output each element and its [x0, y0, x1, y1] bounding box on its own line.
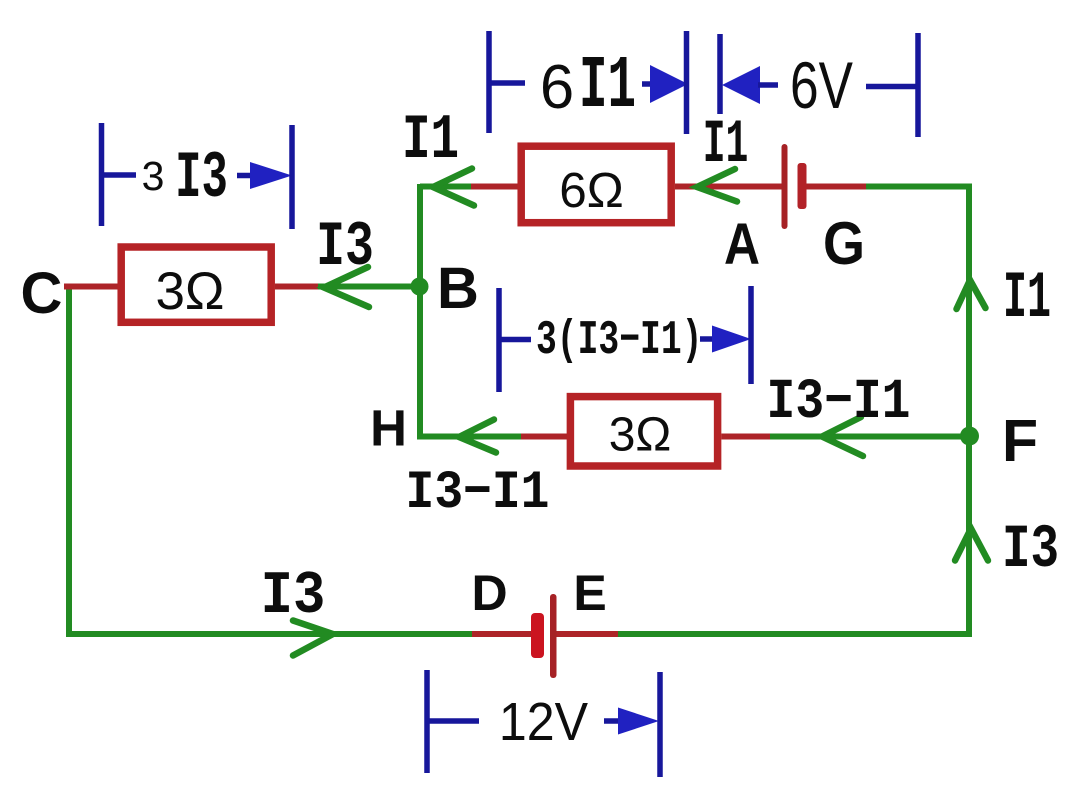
- wire green into node B: [318, 284, 420, 290]
- svg-text:I3: I3: [175, 141, 228, 216]
- svg-text:I1: I1: [579, 44, 636, 128]
- current label I1 right column: [1003, 263, 1051, 337]
- current label I3 bottom: [261, 564, 326, 631]
- svg-text:I3: I3: [261, 564, 326, 631]
- voltage annotation 3(I3-I1) bar right: [748, 286, 754, 384]
- svg-text:3(I3−I1): 3(I3−I1): [536, 313, 702, 368]
- voltage annotation 3(I3-I1) arrow: [700, 326, 751, 353]
- wire green H lead: [417, 434, 521, 440]
- voltage annotation 12V bar right: [657, 672, 663, 777]
- resistor 3ohm left: [121, 247, 271, 322]
- voltage annotation 12V bar left: [427, 670, 479, 773]
- current label I3 right column: [1002, 515, 1059, 586]
- svg-text:I3−I1: I3−I1: [406, 464, 550, 524]
- voltage annotation 6I1 bar right: [684, 31, 690, 134]
- resistor 3ohm middle: [570, 397, 717, 466]
- node label G: [823, 210, 865, 277]
- svg-text:3Ω: 3Ω: [155, 262, 224, 321]
- node B: [411, 278, 429, 296]
- wire red 3ohm right lead: [275, 284, 318, 290]
- wire green top from corner B column: [420, 184, 471, 190]
- voltage annotation 6V text: [790, 48, 853, 123]
- arrowhead I3 bottom wire: [293, 621, 333, 656]
- voltage annotation 6V bar left: [717, 34, 723, 114]
- svg-text:G: G: [823, 210, 865, 277]
- wire bottom horizontal right green: [618, 631, 972, 637]
- current label I3 row B: [316, 211, 374, 283]
- voltage annotation 6I1 text: [540, 44, 636, 128]
- wire left vertical C to bottom: [66, 287, 72, 635]
- voltage annotation 6V bar right: [915, 33, 921, 137]
- wire vertical B column: [417, 184, 423, 437]
- arrowhead I1 left of 6ohm: [433, 169, 474, 206]
- svg-text:I3: I3: [316, 211, 374, 283]
- wire red middle 3ohm left lead: [521, 434, 567, 440]
- voltage annotation 3I3 bar left: [102, 123, 137, 226]
- battery 12V plate short (D side): [531, 613, 544, 658]
- svg-text:I3: I3: [1002, 515, 1059, 586]
- svg-text:12V: 12V: [499, 691, 589, 751]
- svg-text:6Ω: 6Ω: [559, 163, 624, 218]
- svg-text:H: H: [370, 400, 407, 457]
- voltage annotation 6I1 bar left: [489, 31, 525, 133]
- wire bottom horizontal left green: [66, 631, 472, 637]
- wire red middle 3ohm right lead: [721, 434, 770, 440]
- svg-text:3: 3: [142, 153, 165, 199]
- svg-text:A: A: [724, 213, 760, 277]
- wire top right green from corner to battery red: [866, 184, 972, 190]
- voltage annotation 3I3 arrow: [237, 162, 292, 189]
- arrowhead into H: [459, 420, 496, 453]
- arrowhead I1 right of 6ohm: [697, 169, 737, 202]
- current label I3-I1 below H: [406, 464, 550, 524]
- svg-text:I1: I1: [703, 110, 749, 180]
- wire red battery G side: [807, 184, 867, 190]
- wire green to node F: [770, 434, 969, 440]
- arrowhead I3 up right column: [955, 529, 988, 561]
- voltage annotation 12V text: [499, 691, 589, 751]
- node label E: [573, 565, 606, 621]
- svg-text:I1: I1: [402, 105, 459, 176]
- node label D: [471, 565, 507, 621]
- voltage annotation 12V arrow: [604, 708, 659, 735]
- node label A: [724, 213, 760, 277]
- voltage annotation 3I3 text: [142, 141, 228, 216]
- voltage annotation 6V line: [866, 84, 918, 90]
- current label I1 top left: [402, 105, 459, 176]
- wire red 6ohm left lead: [471, 184, 518, 190]
- arrowhead I3 into 3ohm left row: [324, 267, 369, 307]
- svg-text:I3−I1: I3−I1: [767, 369, 911, 434]
- wire red battery A side to resistor 6ohm: [675, 184, 782, 190]
- battery 6V plate long (A side): [782, 144, 788, 229]
- svg-text:F: F: [1002, 408, 1038, 474]
- wire bottom red right of battery: [556, 631, 618, 637]
- current label I3-I1 above middle resistor: [767, 369, 911, 434]
- node label C: [21, 261, 63, 326]
- svg-text:E: E: [573, 565, 606, 621]
- node label H: [370, 400, 407, 457]
- svg-text:3Ω: 3Ω: [609, 409, 672, 462]
- wire red C to resistor 3ohm: [64, 284, 118, 290]
- node F: [960, 427, 979, 446]
- voltage annotation 6I1 arrow: [642, 65, 688, 103]
- voltage annotation 6V arrow: [722, 66, 778, 104]
- svg-text:B: B: [437, 256, 479, 321]
- arrowhead into middle 3ohm from F: [822, 417, 863, 456]
- node label F: [1002, 408, 1038, 474]
- svg-text:6V: 6V: [790, 48, 853, 123]
- node label B: [437, 256, 479, 321]
- arrowhead I1 up right column: [957, 280, 986, 309]
- voltage annotation 3(I3-I1) text: [536, 313, 702, 368]
- svg-text:C: C: [21, 261, 63, 326]
- wire bottom red left of battery: [472, 631, 531, 637]
- wire right vertical F column: [966, 184, 972, 634]
- voltage annotation 3(I3-I1) bar left: [499, 288, 531, 392]
- svg-text:I1: I1: [1003, 263, 1051, 337]
- svg-text:6: 6: [540, 53, 574, 122]
- current label I1 top mid: [703, 110, 749, 180]
- resistor 6ohm: [521, 146, 671, 223]
- svg-text:D: D: [471, 565, 507, 621]
- battery 12V plate long (E side): [550, 594, 557, 678]
- voltage annotation 3I3 bar right: [289, 125, 295, 229]
- battery 6V plate short (G side): [798, 163, 807, 209]
